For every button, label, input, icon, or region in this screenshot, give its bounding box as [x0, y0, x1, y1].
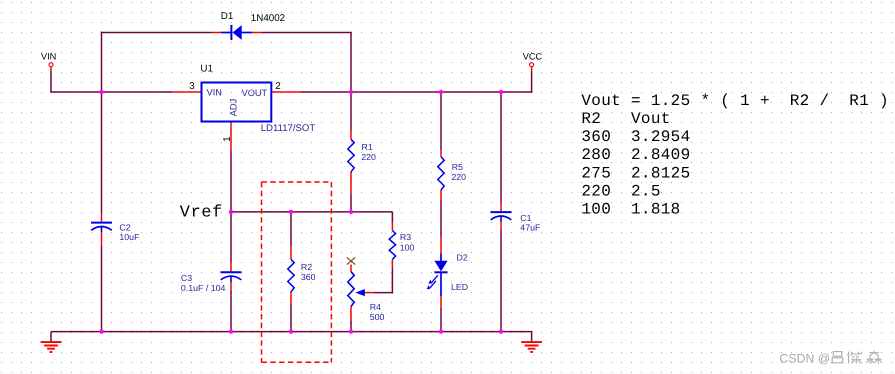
wire main rail VIN junction to U1 pin3 [102, 91, 173, 93]
wire main rail U1 pin2 to VCC corner [301, 91, 533, 93]
label D2 [457, 253, 468, 263]
label D1 [221, 11, 234, 22]
diode D1 1N4002 [212, 25, 261, 40]
svg-text:VOUT: VOUT [242, 88, 268, 98]
label C2 [119, 223, 130, 233]
label R2 [301, 262, 312, 272]
label VIN pin name [207, 88, 222, 98]
svg-text:Vref: Vref [180, 204, 223, 223]
svg-text:2: 2 [275, 81, 280, 92]
pin stub red C3 bottom [230, 282, 232, 291]
label R5 [452, 162, 463, 172]
label R3 [400, 232, 411, 242]
label R3 value 100 [400, 242, 415, 252]
junction at 351,92 [349, 90, 353, 94]
junction at 501,331.6 [499, 329, 503, 333]
wire R1 top [350, 92, 352, 130]
junction at 501,92 [499, 90, 503, 94]
svg-text:R4: R4 [370, 302, 381, 312]
svg-text:220 2.5: 220 2.5 [581, 182, 660, 200]
resistor R5 [438, 157, 444, 190]
svg-text:VIN: VIN [41, 52, 56, 62]
svg-text:1N4002: 1N4002 [251, 13, 285, 24]
capacitor C1 [491, 212, 512, 222]
pin stub red R3 bottom [391, 260, 393, 269]
resistor R1 [348, 139, 354, 172]
svg-text:100: 100 [400, 242, 415, 252]
wire ground rail bottom [51, 331, 533, 333]
label C1 [520, 213, 531, 223]
capacitor C3 [221, 272, 242, 282]
power terminal VIN [49, 63, 53, 71]
svg-text:R3: R3 [400, 232, 411, 242]
svg-text:360 3.2954: 360 3.2954 [581, 128, 690, 146]
wire C1 top [500, 92, 502, 203]
label C2 value 10uF [119, 232, 140, 242]
wire top loop horizontal right of D1 [261, 32, 352, 34]
pin stub red R2 bottom [290, 292, 292, 305]
pin stub red R2 top [290, 247, 292, 260]
junction at 231,211.9 [229, 210, 233, 214]
label R1 value 220 [361, 152, 376, 162]
svg-text:R2 Vout: R2 Vout [581, 110, 670, 128]
resistor R4 potentiometer [348, 272, 365, 307]
svg-text:280 2.8409: 280 2.8409 [581, 146, 690, 164]
svg-text:275 2.8125: 275 2.8125 [581, 164, 690, 182]
junction at 441,331.6 [439, 329, 443, 333]
svg-text:ADJ: ADJ [228, 99, 239, 117]
wire R4 bottom to ground rail [350, 321, 352, 332]
svg-text:R1: R1 [362, 142, 373, 152]
wire R5 top [440, 92, 442, 150]
text block Vout formula and table [581, 92, 889, 219]
pin stub red C3 top [230, 263, 232, 272]
label R4 [370, 302, 381, 312]
pin stub red C2 top [101, 214, 103, 222]
pin stub red R5 top [440, 150, 442, 157]
wire left vertical below C2 to ground rail [101, 246, 103, 332]
junction at 101.5,331.6 [99, 329, 103, 333]
label R5 value 220 [451, 172, 466, 182]
label LD1117/SOT [261, 123, 316, 134]
label U1 [200, 64, 213, 75]
svg-text:500: 500 [370, 312, 385, 322]
pin stub red R5 bottom [440, 190, 442, 200]
svg-text:47uF: 47uF [520, 222, 541, 232]
no-ERC cross on R4 pin [347, 257, 355, 264]
pin stub red R3 top [391, 222, 393, 231]
svg-text:100 1.818: 100 1.818 [581, 201, 680, 219]
svg-text:220: 220 [451, 172, 466, 182]
svg-text:VCC: VCC [523, 52, 543, 62]
junction at 101.5,92 [99, 90, 103, 94]
wire C1 bottom to ground rail [500, 230, 502, 332]
ground right [521, 332, 542, 352]
junction at 291,331.6 [289, 329, 293, 333]
pin 2 stub red [271, 91, 301, 93]
capacitor C2 [91, 223, 112, 233]
node Vref label [180, 204, 223, 223]
pin 3 stub red [173, 91, 202, 93]
label C1 value 47uF [520, 222, 541, 232]
wire VIN terminal drop [51, 71, 102, 93]
pin number 2 [275, 81, 280, 92]
junction at 351,211.9 [349, 210, 353, 214]
svg-text:3: 3 [189, 81, 195, 92]
svg-text:C3: C3 [181, 273, 192, 283]
svg-text:LD1117/SOT: LD1117/SOT [261, 123, 316, 134]
power terminal VCC [530, 63, 534, 71]
label 1N4002 [251, 13, 285, 24]
pin 1 stub red (ADJ) [230, 121, 232, 151]
svg-text:Vout = 1.25 * ( 1 + R2 / R1: Vout = 1.25 * ( 1 + R2 / R1 ) [581, 92, 889, 110]
svg-text:R2: R2 [301, 262, 312, 272]
pin number 3 [189, 81, 195, 92]
wire Vref vertical to C3 [230, 212, 232, 263]
junction at 231,331.6 [229, 329, 233, 333]
wire R3 top from Vref rail corner [391, 212, 394, 222]
pin stub red C1 top [500, 203, 502, 212]
label VCC [523, 52, 543, 62]
svg-text:0.1uF / 104: 0.1uF / 104 [181, 283, 226, 293]
wire R1 bottom to Vref rail [350, 194, 352, 212]
label C3 [181, 273, 192, 283]
wire top loop horizontal left of D1 [101, 32, 213, 34]
svg-text:D1: D1 [221, 11, 234, 22]
svg-text:10uF: 10uF [119, 232, 140, 242]
wire Vref rail horizontal [231, 211, 392, 213]
pin stub red C2 bottom [101, 232, 103, 246]
svg-text:LED: LED [451, 282, 468, 292]
pin stub red R1 top [350, 130, 352, 139]
label R1 [362, 142, 373, 152]
resistor R2 [288, 259, 294, 292]
dashed highlight box around R2 [262, 182, 332, 362]
label VIN [41, 52, 56, 62]
wire C3 bottom to ground rail [230, 291, 232, 332]
ground left [41, 332, 62, 352]
svg-text:R5: R5 [452, 162, 463, 172]
svg-text:U1: U1 [200, 64, 213, 75]
svg-text:360: 360 [301, 272, 316, 282]
wire R2 bottom to ground rail [290, 305, 292, 332]
svg-text:1: 1 [222, 136, 233, 141]
label ADJ pin name rotated [228, 99, 239, 117]
label LED [451, 282, 468, 292]
wire left vertical VIN rail x=101.5 (top loop to C2) [101, 32, 103, 214]
wire top loop right vertical x=351 [350, 33, 352, 93]
label C3 value [181, 283, 226, 293]
junction at 351,331.6 [349, 329, 353, 333]
svg-text:CSDN @: CSDN @ [780, 351, 831, 365]
op-amp U1 LD1117/SOT regulator box [202, 83, 272, 122]
wire VCC vertical [531, 71, 533, 93]
label R2 value 360 [301, 272, 316, 282]
pin stub red R4 wiper [364, 292, 374, 294]
label R4 value 500 [370, 312, 385, 322]
pin stub red R1 bottom [350, 172, 352, 194]
junction at 291,211.9 [289, 210, 293, 214]
pin stub red C1 bottom [500, 222, 502, 230]
pin stub red R4 top (below no-ERC) [350, 265, 352, 272]
LED D2 [427, 254, 448, 297]
watermark CSDN [780, 351, 883, 366]
wire R2 top [290, 212, 292, 247]
wire R5 to D2 [440, 200, 442, 237]
svg-text:220: 220 [361, 152, 376, 162]
pin stub red D2 cathode [440, 296, 442, 308]
svg-text:VIN: VIN [207, 88, 222, 98]
wire R3 bottom corner to wiper [374, 268, 393, 293]
pin stub red R4 bottom [350, 307, 352, 322]
junction at 441,92 [439, 90, 443, 94]
pin number 1 rotated [222, 136, 233, 141]
wire ADJ vertical to Vref rail [230, 151, 232, 212]
pin stub red D2 anode [440, 237, 442, 253]
svg-text:D2: D2 [457, 253, 468, 263]
wire D2 to ground rail [440, 308, 442, 332]
label VOUT pin name [242, 88, 268, 98]
resistor R3 [389, 231, 395, 260]
